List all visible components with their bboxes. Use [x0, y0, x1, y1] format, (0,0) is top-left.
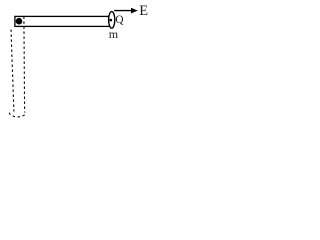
svg-text:Q: Q — [115, 14, 123, 26]
svg-text:E: E — [139, 3, 148, 19]
svg-text:m: m — [109, 27, 119, 41]
